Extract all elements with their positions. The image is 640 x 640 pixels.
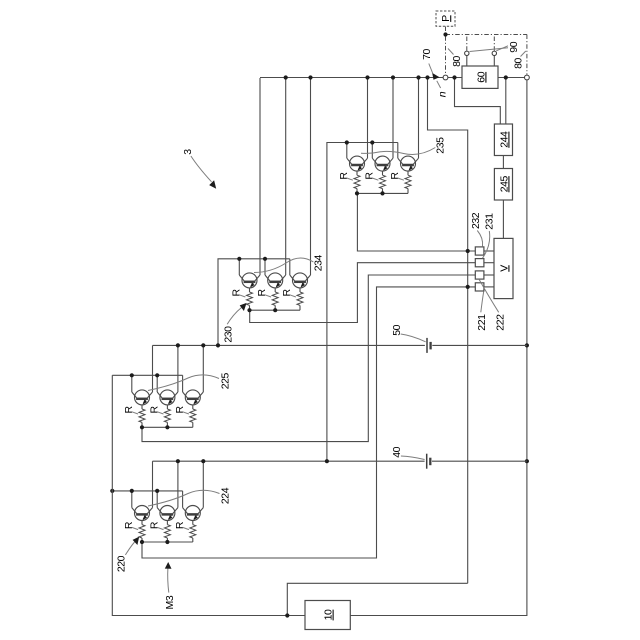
wire base feed Q1 bbox=[131, 491, 133, 508]
wire main supply line bbox=[260, 77, 462, 79]
group 224 collector drop Q1 from line 40 bbox=[152, 461, 154, 507]
transistor Q7 group 234 bbox=[239, 273, 260, 288]
svg-text:230: 230 bbox=[222, 326, 234, 343]
group 234 emitter bus bbox=[250, 309, 301, 311]
box P (dashed) bbox=[436, 11, 455, 26]
wire base feed Q6 bbox=[182, 375, 184, 392]
svg-text:90: 90 bbox=[508, 41, 520, 52]
junction dot bus50 at 218 bbox=[216, 343, 220, 347]
node terminal 80 right bbox=[525, 75, 530, 80]
svg-text:225: 225 bbox=[219, 373, 231, 390]
transistor Q3 group 224 bbox=[183, 506, 204, 521]
svg-text:10: 10 bbox=[323, 609, 335, 620]
svg-text:P: P bbox=[440, 15, 452, 22]
wire base feed Q3 bbox=[182, 491, 184, 508]
wire base feed Q4 bbox=[131, 375, 133, 392]
line 40 with battery symbol bbox=[153, 460, 425, 462]
wire dash-dot link down to terminal 80 bbox=[526, 35, 528, 75]
resistor R of Q10 bbox=[356, 171, 358, 175]
svg-text:80: 80 bbox=[451, 56, 463, 67]
wire main line to box 244 right terminal bbox=[505, 78, 507, 125]
wire main line to bus 467 down to bottom bbox=[428, 78, 468, 584]
wire 245 to box V bbox=[502, 200, 504, 238]
wire base feed Q9 bbox=[289, 259, 291, 275]
svg-text:222: 222 bbox=[495, 314, 507, 331]
line 50 with battery symbol bbox=[153, 344, 425, 346]
group 235 base bus with left drop to line 40 bbox=[327, 143, 398, 462]
wire base feed Q10 bbox=[346, 143, 348, 159]
group 235 emitter bus bbox=[357, 192, 408, 194]
wire group 225 output to terminal 221 bbox=[142, 275, 475, 442]
svg-text:n: n bbox=[437, 91, 449, 97]
transistor Q1 group 224 bbox=[132, 506, 153, 521]
battery 40 long plate bbox=[426, 454, 428, 469]
svg-text:70: 70 bbox=[421, 49, 433, 60]
wire base feed Q12 bbox=[397, 143, 399, 159]
wire base feed Q7 bbox=[238, 259, 240, 275]
wire collector feed Q12 group 235 bbox=[418, 78, 420, 159]
resistor R of Q2 bbox=[166, 521, 168, 525]
wire main line to box 244 left terminal bbox=[455, 78, 501, 125]
group 225 collector drop Q4 from line 50 bbox=[152, 345, 154, 392]
wire stub to switch contact right bbox=[493, 56, 495, 66]
transistor Q11 group 235 bbox=[372, 156, 393, 171]
transistor Q2 group 224 bbox=[157, 506, 178, 521]
junction dot bus40 at 327 bbox=[325, 459, 329, 463]
wire right terminal bus 80 bbox=[350, 80, 527, 615]
wire main line right of box 60 bbox=[498, 77, 524, 79]
svg-text:3: 3 bbox=[182, 149, 194, 155]
svg-text:V: V bbox=[498, 265, 510, 272]
group 224 emitter bus bbox=[142, 541, 193, 543]
transistor Q6 group 225 bbox=[183, 390, 204, 405]
svg-text:234: 234 bbox=[313, 255, 325, 272]
svg-text:80: 80 bbox=[513, 58, 525, 69]
node switch contact right bbox=[492, 51, 496, 55]
transistor Q5 group 225 bbox=[157, 390, 178, 405]
group 224 base bus bbox=[112, 490, 182, 492]
wire collector feed Q10 group 235 bbox=[367, 78, 369, 159]
group 225 collector drop Q5 bbox=[177, 345, 179, 392]
svg-text:M3: M3 bbox=[164, 595, 176, 609]
resistor R of Q7 bbox=[249, 288, 251, 292]
transistor Q9 group 234 bbox=[290, 273, 311, 288]
battery 40 short plate bbox=[429, 458, 431, 466]
wire group 224 output to terminal 222 bbox=[142, 287, 475, 558]
junction dot right bus at line 40 bbox=[525, 459, 529, 463]
resistor R of Q9 bbox=[299, 288, 301, 292]
wire dash-dot link P to node n bbox=[445, 27, 447, 75]
wire base feed Q11 bbox=[371, 143, 373, 159]
box 245 bbox=[494, 169, 512, 201]
wire collector feed Q7 group 234 bbox=[259, 78, 261, 275]
node switch contact left bbox=[465, 51, 469, 55]
wire dash-dot horizontal link bbox=[446, 34, 527, 36]
group 224 collector drop Q3 bbox=[202, 461, 204, 507]
terminal square 231 bbox=[475, 259, 484, 267]
transistor Q4 group 225 bbox=[132, 390, 153, 405]
wire collector feed Q8 group 234 bbox=[285, 78, 287, 276]
wire dash-dot link to contact right bbox=[493, 35, 495, 51]
wire base feed Q2 bbox=[156, 491, 158, 508]
junction dots on main line bbox=[284, 75, 288, 79]
transistor Q10 group 235 bbox=[347, 156, 368, 171]
node n (open circle) bbox=[443, 75, 448, 80]
resistor R of Q6 bbox=[192, 405, 194, 409]
battery 50 short plate bbox=[429, 342, 431, 350]
transistor Q12 group 235 bbox=[398, 156, 419, 171]
svg-text:245: 245 bbox=[498, 176, 510, 193]
wire base supply bus down to controller 10 bbox=[112, 375, 305, 615]
svg-text:221: 221 bbox=[476, 314, 488, 331]
resistor R of Q5 bbox=[166, 405, 168, 409]
wire base feed Q5 bbox=[156, 375, 158, 392]
terminal square 222 bbox=[475, 283, 484, 291]
battery 50 long plate bbox=[426, 338, 428, 353]
wire dash-dot link to contact left bbox=[466, 35, 468, 51]
resistor R of Q12 bbox=[407, 171, 409, 175]
resistor R of Q8 bbox=[274, 288, 276, 292]
group 224 collector drop Q2 bbox=[177, 461, 179, 507]
resistor R of Q1 bbox=[141, 521, 143, 525]
svg-text:235: 235 bbox=[435, 137, 447, 154]
box 244 bbox=[494, 124, 512, 156]
wire stub to switch contact left bbox=[466, 56, 468, 66]
wire base feed Q8 bbox=[264, 259, 266, 275]
svg-text:60: 60 bbox=[475, 71, 487, 82]
resistor R of Q3 bbox=[192, 521, 194, 525]
box 60 bbox=[462, 66, 498, 88]
terminal square 221 bbox=[475, 271, 484, 279]
junction dot right bus at line 50 bbox=[525, 343, 529, 347]
svg-text:232: 232 bbox=[470, 212, 482, 229]
box V bbox=[494, 238, 513, 298]
group 225 base bus bbox=[112, 374, 182, 376]
group 234 base bus with left drop to line 50 bbox=[218, 259, 290, 346]
wire group 235 output to terminal 232 bbox=[357, 193, 475, 251]
wire collector feed Q11 group 235 bbox=[392, 78, 394, 159]
wire riser from bottom line to bus 467 bbox=[287, 583, 467, 615]
svg-text:244: 244 bbox=[498, 131, 510, 148]
svg-text:231: 231 bbox=[483, 213, 495, 230]
svg-text:220: 220 bbox=[116, 555, 128, 572]
group 225 collector drop Q6 bbox=[202, 345, 204, 392]
box 10 bbox=[305, 601, 350, 630]
group 225 emitter bus bbox=[142, 426, 193, 428]
resistor R of Q11 bbox=[382, 171, 384, 175]
junction dot on dash-dot link bbox=[443, 32, 447, 36]
transistor Q8 group 234 bbox=[265, 273, 286, 288]
wire collector feed Q9 group 234 bbox=[310, 78, 312, 276]
resistor R of Q4 bbox=[141, 405, 143, 409]
wire 244 to 245 bbox=[502, 156, 504, 169]
terminal square 232 bbox=[475, 247, 484, 255]
svg-text:224: 224 bbox=[219, 487, 231, 504]
wire group 234 output to terminal 231 bbox=[250, 263, 476, 323]
junction dot bottom line bbox=[285, 613, 289, 617]
